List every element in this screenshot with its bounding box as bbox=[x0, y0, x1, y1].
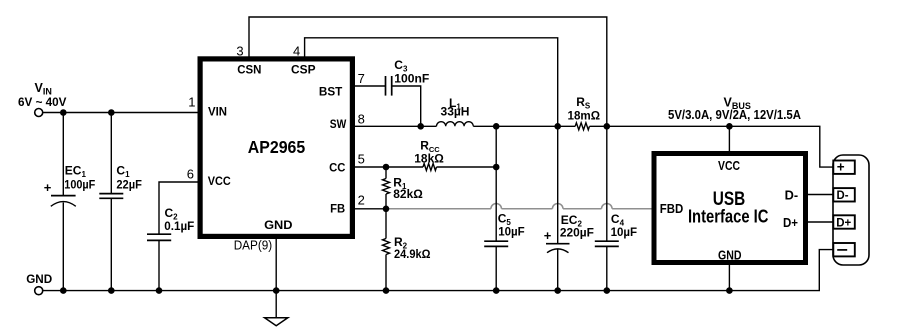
USB connector plus pad bbox=[833, 161, 855, 174]
wire VCC drop to USB IC bbox=[728, 126, 730, 152]
svg-text:D-: D- bbox=[785, 189, 799, 203]
wire FB gray segment 1 bbox=[386, 208, 491, 210]
svg-text:8: 8 bbox=[358, 111, 365, 126]
wire CC net bbox=[354, 166, 423, 168]
wire to ground symbol bbox=[275, 291, 277, 318]
svg-text:82kΩ: 82kΩ bbox=[393, 187, 423, 201]
svg-text:+: + bbox=[544, 228, 552, 243]
svg-text:AP2965: AP2965 bbox=[248, 137, 306, 157]
svg-text:33µH: 33µH bbox=[441, 105, 470, 119]
wire FB hop over EC2 line bbox=[552, 204, 563, 209]
capacitor C4 bbox=[595, 126, 637, 290]
svg-text:FB: FB bbox=[330, 201, 345, 215]
resistor RS bbox=[575, 123, 589, 130]
svg-text:D-: D- bbox=[837, 188, 849, 202]
svg-text:VCC: VCC bbox=[208, 174, 231, 188]
svg-text:7: 7 bbox=[358, 71, 365, 86]
wire FB gray segment 2 bbox=[502, 208, 553, 210]
capacitor C1 bbox=[99, 113, 142, 291]
svg-text:+: + bbox=[44, 180, 52, 195]
svg-text:6: 6 bbox=[187, 167, 194, 182]
resistor R1 bbox=[383, 167, 424, 209]
USB connector shell bbox=[833, 155, 869, 265]
node junction dots bbox=[60, 109, 733, 294]
wire FB gray segment 4 to FBD bbox=[612, 208, 653, 210]
svg-text:BST: BST bbox=[319, 84, 343, 98]
wire FB black stub bbox=[354, 208, 386, 210]
USB connector minus pad bbox=[833, 243, 855, 256]
wire SW output line bbox=[354, 125, 437, 127]
svg-text:GND: GND bbox=[264, 218, 293, 232]
svg-text:10µF: 10µF bbox=[611, 225, 638, 239]
wire FB gray segment 3 bbox=[563, 208, 602, 210]
svg-text:GND: GND bbox=[26, 272, 52, 286]
svg-text:1: 1 bbox=[188, 95, 195, 110]
wire VIN input rail bbox=[43, 112, 199, 114]
svg-text:5V/3.0A, 9V/2A, 12V/1.5A: 5V/3.0A, 9V/2A, 12V/1.5A bbox=[668, 108, 801, 122]
svg-text:6V ~ 40V: 6V ~ 40V bbox=[18, 95, 67, 109]
wire BST to C3 bbox=[354, 85, 385, 87]
svg-text:100nF: 100nF bbox=[394, 71, 429, 85]
svg-text:2: 2 bbox=[358, 193, 365, 208]
svg-text:VCC: VCC bbox=[718, 159, 740, 173]
svg-text:Interface IC: Interface IC bbox=[688, 207, 769, 227]
svg-text:4: 4 bbox=[293, 43, 300, 58]
svg-text:CSN: CSN bbox=[237, 62, 261, 76]
svg-text:100µF: 100µF bbox=[64, 178, 95, 192]
svg-text:0.1µF: 0.1µF bbox=[164, 219, 194, 233]
svg-text:3: 3 bbox=[236, 43, 243, 58]
resistor RCC bbox=[423, 164, 437, 171]
op-amp U1 AP2965 box bbox=[200, 59, 352, 237]
wire GND pin drop of U1 bbox=[275, 237, 277, 291]
svg-text:24.9kΩ: 24.9kΩ bbox=[394, 247, 431, 261]
svg-text:5: 5 bbox=[358, 152, 365, 167]
svg-text:+: + bbox=[837, 160, 845, 175]
svg-text:10µF: 10µF bbox=[498, 225, 525, 239]
node VIN terminal bbox=[35, 109, 43, 117]
svg-text:18kΩ: 18kΩ bbox=[414, 151, 444, 165]
svg-text:18mΩ: 18mΩ bbox=[568, 109, 601, 123]
ground symbol bbox=[265, 318, 288, 326]
wire L1 to RS bbox=[473, 125, 575, 127]
wire D- to connector bbox=[806, 194, 834, 196]
wire GND drop from USB IC bbox=[728, 264, 730, 291]
wire RCC to C5 node bbox=[437, 166, 497, 168]
inductor L1 bbox=[437, 122, 474, 127]
svg-text:CSP: CSP bbox=[291, 62, 316, 76]
wire CSP net bbox=[305, 38, 558, 127]
wire ground rail bbox=[43, 250, 834, 291]
USB connector D- pad bbox=[833, 188, 855, 201]
resistor R2 bbox=[383, 209, 431, 291]
capacitor C3 bbox=[386, 58, 430, 126]
capacitor EC1 bbox=[44, 113, 96, 291]
USB connector D+ pad bbox=[833, 215, 855, 228]
op-amp U2 USB Interface IC box bbox=[654, 154, 806, 263]
wire D+ to connector bbox=[806, 221, 834, 223]
wire FB hop over C4 line bbox=[602, 204, 613, 209]
svg-text:SW: SW bbox=[330, 117, 347, 131]
capacitor EC2 bbox=[544, 126, 594, 290]
node GND terminal bbox=[35, 287, 43, 295]
svg-text:VIN: VIN bbox=[208, 105, 227, 119]
capacitor C5 bbox=[484, 126, 525, 290]
svg-text:DAP(9): DAP(9) bbox=[234, 239, 273, 253]
svg-text:D+: D+ bbox=[836, 215, 851, 229]
svg-text:D+: D+ bbox=[783, 216, 798, 230]
svg-text:FBD: FBD bbox=[660, 202, 684, 216]
wire FB hop over C5 line bbox=[491, 204, 502, 209]
svg-text:CC: CC bbox=[329, 160, 346, 174]
wire RS to VBUS corner bbox=[590, 126, 834, 167]
svg-text:220µF: 220µF bbox=[560, 225, 594, 239]
svg-text:22µF: 22µF bbox=[116, 178, 141, 192]
capacitor C2 bbox=[147, 182, 199, 291]
wire CSN net bbox=[249, 17, 607, 126]
svg-text:GND: GND bbox=[718, 248, 742, 262]
